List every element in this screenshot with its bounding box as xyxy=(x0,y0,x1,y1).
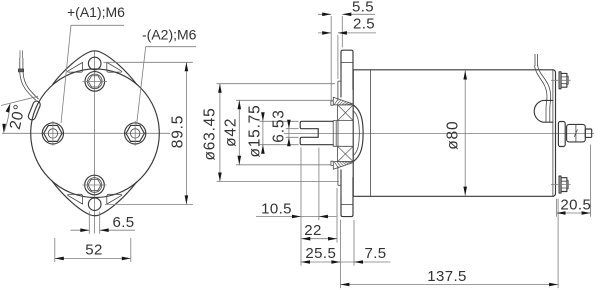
end cap outer face xyxy=(553,70,556,197)
svg-text:52: 52 xyxy=(85,242,103,259)
wire pair left xyxy=(20,72,36,100)
bottom bolt xyxy=(82,175,106,195)
hatched wedge top xyxy=(333,97,353,105)
hatched wedge bottom xyxy=(333,162,353,170)
plunger fork top prong xyxy=(300,121,333,128)
guide collar xyxy=(333,121,338,147)
flange tab top xyxy=(341,50,353,97)
wire exit boss xyxy=(27,100,41,121)
terminal bolt A2 (right) xyxy=(125,121,146,146)
wire tips right xyxy=(535,54,538,66)
wires right xyxy=(535,66,547,123)
bottom small stud xyxy=(551,176,571,193)
top tab cutout right xyxy=(107,62,122,72)
svg-text:ø80: ø80 xyxy=(445,121,462,150)
svg-text:2.5: 2.5 xyxy=(353,16,375,33)
top bolt xyxy=(83,72,108,92)
dimension 2.5 xyxy=(318,33,376,79)
svg-text:ø42: ø42 xyxy=(222,118,239,147)
svg-text:137.5: 137.5 xyxy=(427,268,467,285)
svg-text:6.53: 6.53 xyxy=(271,109,288,142)
cable clamp xyxy=(534,100,553,122)
dimension 25.5 xyxy=(301,220,340,288)
svg-text:20.5: 20.5 xyxy=(560,196,591,213)
dimension o63.45 xyxy=(217,84,339,182)
boss step bottom xyxy=(331,161,333,165)
top tab hole xyxy=(88,57,101,70)
top tab cutout left xyxy=(68,62,83,72)
svg-text:5.5: 5.5 xyxy=(352,0,374,15)
top mounting tab xyxy=(53,51,137,85)
wire upper leads xyxy=(20,58,23,69)
dome boot outer xyxy=(353,105,363,162)
dimension o15.75 xyxy=(260,113,299,154)
X-box bottom (sectioned nut) xyxy=(338,146,354,161)
dimension 89.5 xyxy=(104,62,193,204)
svg-text:6.5: 6.5 xyxy=(113,214,135,231)
svg-text:22: 22 xyxy=(304,222,322,239)
dimension o42 xyxy=(236,100,333,165)
dimension 5.5 xyxy=(318,14,375,101)
svg-text:ø63.45: ø63.45 xyxy=(202,107,219,160)
terminal bolt A1 (left) xyxy=(42,121,63,146)
dimension 7.5 xyxy=(340,220,390,266)
top small stud xyxy=(551,72,571,89)
dimension 6.53 xyxy=(286,120,299,146)
main body circle xyxy=(31,69,160,198)
dimension 52 xyxy=(55,238,131,262)
svg-text:89.5: 89.5 xyxy=(170,115,187,148)
svg-text:-(A2);M6: -(A2);M6 xyxy=(142,27,197,43)
centerline vertical xyxy=(94,51,96,234)
dimension 20.5 xyxy=(557,145,591,217)
centerline horizontal xyxy=(284,132,594,134)
flange plate steps top xyxy=(338,71,341,101)
wire crimp sleeve xyxy=(18,69,23,72)
dimension 20 degrees xyxy=(1,96,38,105)
dimension o80 xyxy=(464,71,466,196)
flange tab bottom xyxy=(341,170,353,217)
centerline horizontal xyxy=(2,132,170,134)
X-box top (sectioned nut) xyxy=(338,105,354,121)
svg-text:10.5: 10.5 xyxy=(261,200,292,217)
bottom tab hole xyxy=(88,198,101,211)
bottom tab cutout left xyxy=(68,194,83,204)
dimension 137.5 xyxy=(340,199,558,288)
dimension 10.5 xyxy=(256,148,337,266)
body seam xyxy=(369,70,371,197)
bottom tab cutout right xyxy=(107,194,122,204)
fork slot end xyxy=(317,129,319,138)
dimension 6.5 xyxy=(71,212,136,234)
boss step top xyxy=(331,101,333,105)
dome boot inner xyxy=(353,111,359,156)
dimension 22 xyxy=(301,188,337,243)
svg-text:ø15.75: ø15.75 xyxy=(246,104,263,157)
cylinder body xyxy=(353,70,553,197)
wire tips xyxy=(20,50,23,58)
plunger fork bottom prong xyxy=(300,137,333,144)
flange plate steps bottom xyxy=(338,166,341,196)
bottom mounting tab xyxy=(53,182,137,216)
svg-text:25.5: 25.5 xyxy=(305,245,336,262)
main terminal stud xyxy=(558,122,591,147)
svg-text:7.5: 7.5 xyxy=(364,245,386,262)
svg-text:+(A1);M6: +(A1);M6 xyxy=(67,4,125,20)
